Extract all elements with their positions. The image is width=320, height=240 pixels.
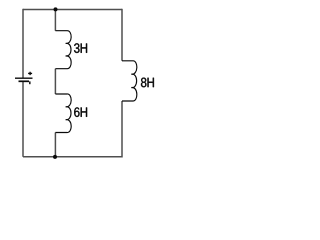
battery V1 minus mark bbox=[29, 81, 31, 84]
wire left upper bbox=[22, 9, 24, 78]
wire top bbox=[23, 9, 122, 11]
inductor L1 coil 3H bbox=[55, 31, 71, 69]
inductor L3 label 8H bbox=[141, 78, 146, 88]
inductor L3 coil 8H bbox=[122, 61, 137, 101]
battery V1 plate short (-) bbox=[19, 80, 30, 82]
wire middle upper lead bbox=[54, 10, 56, 31]
node top junction bbox=[54, 7, 58, 11]
wire middle between coils bbox=[54, 69, 56, 94]
wire right lower bbox=[121, 101, 123, 158]
wire bottom bbox=[23, 156, 122, 158]
battery V1 plus sign bbox=[28, 72, 32, 75]
node bottom junction bbox=[53, 155, 57, 159]
inductor L2 label 6H bbox=[74, 107, 79, 117]
inductor L2 coil 6H bbox=[55, 94, 71, 133]
wire right upper bbox=[121, 9, 123, 61]
inductor L1 label 3H bbox=[74, 43, 79, 53]
battery V1 plate long (+) bbox=[15, 77, 33, 79]
wire left lower bbox=[22, 82, 24, 157]
wire middle lower lead bbox=[54, 133, 56, 157]
